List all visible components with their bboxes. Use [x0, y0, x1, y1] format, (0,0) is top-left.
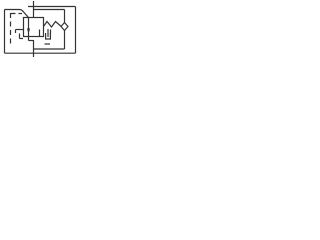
- node P top port stub x=33.5: [33, 1, 35, 18]
- valve V1 body square: [24, 18, 44, 37]
- enclosure dashed top edge y=13.5: [11, 13, 23, 15]
- wire inner ring bottom y=49.5: [34, 48, 65, 50]
- wire left edge x=4.5: [4, 10, 6, 54]
- valve V1 internal return stub: [39, 30, 41, 37]
- pilot line dashed: valve left to down: [16, 29, 24, 31]
- enclosure dashed left edge x=10.5: [10, 13, 12, 44]
- valve V1 internal flow line (offset): [28, 18, 30, 41]
- wire pilot/flow path: left edge top, elbow diagonal into valve: [5, 10, 29, 18]
- wire outer pilot ring: right x=75.5: [75, 7, 77, 54]
- wire inner ring right x=64.5: [64, 10, 66, 50]
- wire outer pilot ring: top y=6.5: [28, 6, 76, 8]
- tank T1 symbol: [46, 33, 51, 39]
- wire tank inlet: [47, 29, 49, 37]
- wire inner ring top right segment y=9.5: [34, 9, 65, 11]
- wire outer/bottom edge y=53.5: [5, 52, 76, 54]
- valve V1 flow arrowhead: [27, 29, 30, 34]
- node T bottom port stub x=33.5: [33, 40, 35, 57]
- enclosure dashed bottom edge y=46.5: [45, 43, 51, 45]
- enclosure dashed right edge x=50.5: [50, 30, 52, 35]
- diamond measuring symbol on right line: [61, 23, 68, 31]
- spring S1 zigzag: [44, 22, 62, 28]
- wire outlet jog to bottom port: [29, 40, 34, 42]
